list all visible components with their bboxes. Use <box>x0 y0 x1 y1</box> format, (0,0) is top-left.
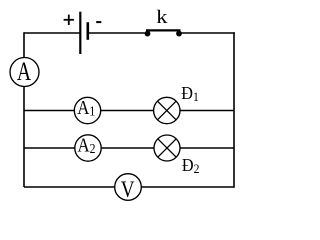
voltmeter V <box>115 174 142 201</box>
switch contact dot right <box>176 31 182 37</box>
wire branch row 2 <box>24 147 234 149</box>
label - <box>96 21 101 23</box>
battery short plate (-) <box>87 22 90 40</box>
ammeter A1 <box>74 97 100 123</box>
battery long plate (+) <box>79 12 81 54</box>
switch k bar <box>146 29 181 31</box>
wire branch row 1 <box>24 110 234 112</box>
wire switch to top-right corner <box>178 32 235 34</box>
ammeter A2 <box>75 135 101 161</box>
wire bottom rail <box>24 186 234 188</box>
switch contact dot left <box>145 31 151 37</box>
ammeter A <box>10 58 39 87</box>
wire battery to switch <box>88 32 148 34</box>
svg-text:A: A <box>17 56 32 85</box>
wire right vertical <box>233 32 235 188</box>
svg-text:k: k <box>156 7 168 28</box>
label + <box>64 15 74 25</box>
wire left vertical <box>23 32 25 187</box>
lamp D1 <box>154 97 180 123</box>
lamp D2 <box>154 135 180 161</box>
svg-text:V: V <box>121 176 135 202</box>
wire top-left horizontal <box>24 32 80 34</box>
